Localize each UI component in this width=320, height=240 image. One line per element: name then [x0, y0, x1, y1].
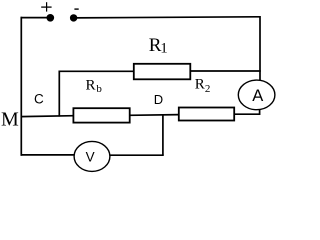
wire R1 row left — [59, 70, 135, 72]
svg-text:2: 2 — [205, 83, 211, 95]
svg-text:R: R — [195, 77, 205, 93]
wire M row right segment — [234, 113, 260, 115]
wire left vertical — [20, 17, 22, 156]
label R2 — [195, 77, 211, 96]
resistor R1 box — [134, 64, 191, 80]
wire C vertical (node C branch) — [58, 71, 60, 117]
wire top-left (battery + lead) — [21, 17, 50, 19]
battery plus sign — [41, 2, 51, 11]
wire M row left segment — [21, 115, 75, 118]
battery minus sign — [74, 8, 78, 10]
wire bottom right (voltmeter to D branch) — [109, 154, 164, 156]
svg-text:b: b — [96, 83, 102, 95]
svg-text:A: A — [252, 87, 263, 105]
label Rb — [86, 77, 103, 95]
wire right vertical — [259, 16, 261, 82]
wire R1 row right — [190, 70, 261, 72]
battery negative terminal dot — [70, 14, 77, 21]
resistor Rb box — [73, 108, 129, 122]
svg-text:M: M — [1, 109, 19, 131]
svg-text:R: R — [86, 77, 96, 93]
battery positive terminal dot — [46, 14, 54, 22]
wire D vertical (node D branch) — [162, 115, 164, 156]
label R1 — [149, 35, 168, 57]
svg-text:D: D — [154, 92, 163, 107]
ammeter U-A circle — [238, 80, 275, 110]
svg-text:C: C — [34, 91, 44, 106]
wire ammeter bottom lead — [259, 108, 261, 115]
wire top-right (battery - lead to right side) — [74, 17, 261, 18]
wire bottom left (to voltmeter) — [21, 154, 76, 156]
resistor R2 box — [179, 108, 234, 121]
wire M row middle segment (Rb to D to R2) — [129, 114, 180, 117]
svg-text:1: 1 — [160, 40, 168, 56]
svg-text:V: V — [86, 149, 95, 164]
voltmeter U-V circle — [74, 141, 110, 171]
